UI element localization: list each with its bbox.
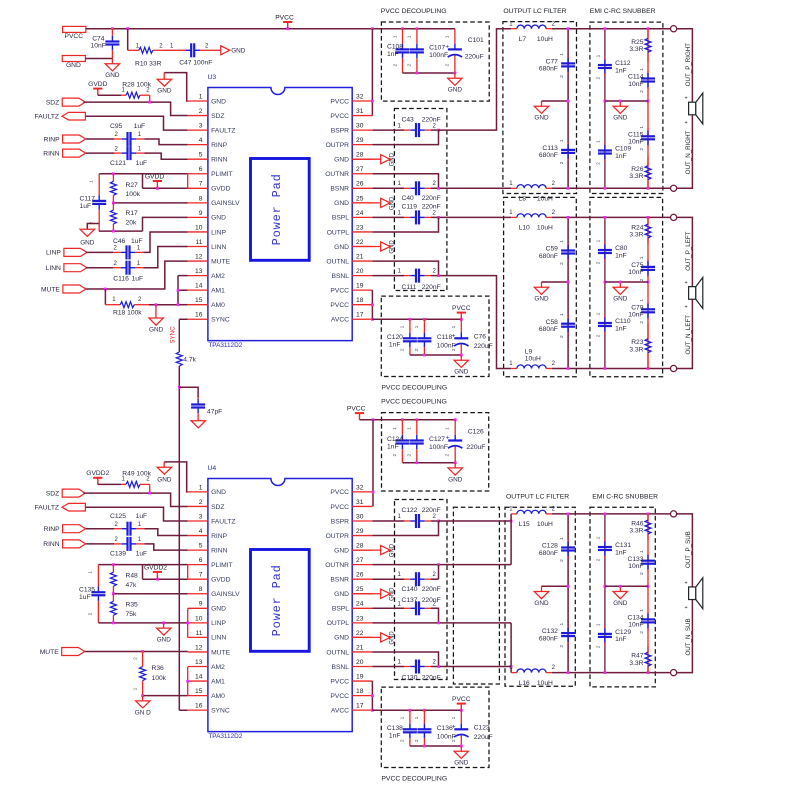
pin 17 AVCC (right) xyxy=(352,318,372,320)
junction xyxy=(567,27,570,30)
svg-text:OUT_N_SUB: OUT_N_SUB xyxy=(685,618,692,655)
svg-text:2: 2 xyxy=(113,246,117,252)
capacitor C124 1nF (U4 PVCC decoupling) xyxy=(401,420,403,435)
svg-text:1: 1 xyxy=(444,35,450,38)
pin 6 PLIMIT (left) xyxy=(188,173,208,175)
wire OUTNL to C111 junction xyxy=(372,261,438,276)
capacitor C115 10nF xyxy=(647,129,649,131)
svg-text:1: 1 xyxy=(451,716,457,719)
ground (U4 pin25) xyxy=(352,593,381,595)
op-amp class-D amplifier IC U4 TPA3112D2 xyxy=(208,479,352,732)
junction xyxy=(647,367,650,370)
svg-text:RINN: RINN xyxy=(211,547,228,554)
ground (snubber mid) xyxy=(619,101,621,106)
power symbol GVDD (pin7) xyxy=(153,180,162,182)
svg-text:2: 2 xyxy=(639,321,645,324)
U4 thermal Power Pad xyxy=(251,550,310,652)
svg-text:2: 2 xyxy=(199,108,203,115)
wire to speaker minus xyxy=(677,299,693,368)
svg-text:R17: R17 xyxy=(126,210,139,217)
connector RINN (U3) xyxy=(63,149,86,157)
svg-text:GND: GND xyxy=(389,543,395,557)
svg-text:C75: C75 xyxy=(631,262,644,269)
svg-text:+: + xyxy=(452,332,456,339)
junction xyxy=(112,621,115,624)
svg-text:2: 2 xyxy=(433,269,437,275)
svg-text:24: 24 xyxy=(356,601,364,608)
svg-text:FAULTZ: FAULTZ xyxy=(35,114,59,121)
svg-text:AVCC: AVCC xyxy=(331,707,349,714)
capacitor C75 10nF xyxy=(647,259,649,261)
terminal xyxy=(671,365,677,371)
svg-text:C101: C101 xyxy=(468,37,484,44)
capacitor C136 100nF xyxy=(423,710,425,723)
svg-text:AM2: AM2 xyxy=(211,664,225,671)
svg-text:+: + xyxy=(685,96,688,102)
svg-text:L8: L8 xyxy=(519,196,527,203)
junction xyxy=(567,367,570,370)
svg-text:2: 2 xyxy=(406,454,412,457)
wire SDZ to U4 pin2 xyxy=(83,493,187,506)
wire OUTNR junction down to C140 xyxy=(438,565,440,580)
junction xyxy=(604,27,607,30)
pin 21 OUTNL (right) xyxy=(352,260,372,262)
svg-text:680nF: 680nF xyxy=(539,326,558,333)
junction xyxy=(148,492,151,495)
svg-text:2: 2 xyxy=(444,64,450,67)
connector FAULTZ (U3) xyxy=(62,112,85,120)
capacitor C101 220uF (PVCC bulk) xyxy=(454,29,456,44)
capacitor C74 10nF xyxy=(111,29,113,35)
wire to speaker minus xyxy=(677,600,693,673)
svg-text:17: 17 xyxy=(356,703,364,710)
svg-text:GAINSLV: GAINSLV xyxy=(211,200,240,207)
svg-text:2: 2 xyxy=(114,146,118,152)
svg-text:13: 13 xyxy=(195,659,203,666)
junction xyxy=(619,281,622,284)
capacitor C120 1nF xyxy=(409,319,411,332)
wire OUT_N_SUB output N row xyxy=(552,672,671,674)
svg-text:680nF: 680nF xyxy=(539,66,558,73)
svg-text:GND: GND xyxy=(448,476,463,483)
ground (R18) xyxy=(155,305,157,318)
ground (U4 pin22) xyxy=(352,636,381,638)
connector RINP (U4) xyxy=(63,525,86,533)
op-amp class-D amplifier IC U3 TPA3112D2 xyxy=(208,88,352,341)
wire R18 to AM pins xyxy=(149,304,178,306)
wire PLIMIT node (U4 pin6 row) xyxy=(98,564,187,566)
svg-text:10: 10 xyxy=(195,615,203,622)
capacitor C76 220uF xyxy=(460,319,462,332)
pin 24 BSPL (right) xyxy=(352,607,372,609)
inductor L15 10uH xyxy=(517,510,546,514)
junction xyxy=(372,418,375,421)
connector MUTE (U4) xyxy=(62,648,85,656)
speaker LEFT xyxy=(689,287,696,300)
svg-text:BSNL: BSNL xyxy=(332,664,350,671)
svg-text:GVDD2: GVDD2 xyxy=(86,470,109,477)
svg-text:C116: C116 xyxy=(113,275,129,282)
wire GVDD2 row (U4 pin7) xyxy=(143,578,188,580)
svg-text:1: 1 xyxy=(398,181,402,187)
svg-text:31: 31 xyxy=(356,108,364,115)
junction xyxy=(647,281,650,284)
wire to speaker plus xyxy=(677,217,693,286)
wire OUTNL to C130 junction (U4) xyxy=(372,652,438,667)
ground (47pF) xyxy=(197,416,199,421)
wire filter cap rail xyxy=(567,29,569,189)
junction xyxy=(460,709,463,712)
svg-text:C132: C132 xyxy=(542,628,558,635)
svg-text:AM1: AM1 xyxy=(211,678,225,685)
svg-text:PVCC: PVCC xyxy=(330,489,349,496)
pin 29 OUTPR (right) xyxy=(352,144,372,146)
svg-text:10uH: 10uH xyxy=(525,356,541,363)
svg-text:GND: GND xyxy=(66,62,81,69)
svg-text:MUTE: MUTE xyxy=(211,258,230,265)
svg-text:PVCC: PVCC xyxy=(347,405,366,412)
junction xyxy=(372,491,375,494)
svg-text:21: 21 xyxy=(356,644,364,651)
wire OUTPL row (U4) xyxy=(372,622,511,624)
wire PLIMIT to GVDD row xyxy=(142,174,144,189)
junction xyxy=(437,563,440,566)
svg-text:2: 2 xyxy=(433,123,437,129)
svg-text:C137: C137 xyxy=(402,597,418,604)
svg-text:220nF: 220nF xyxy=(422,204,441,211)
wire PVCC rail (U4) xyxy=(360,419,456,421)
svg-text:2: 2 xyxy=(596,76,602,79)
junction xyxy=(567,100,570,103)
capacitor C121 1uF (RINN) xyxy=(86,152,114,154)
svg-text:GVDD: GVDD xyxy=(145,174,164,181)
capacitor C111 220nF (BSNL bootstrap) xyxy=(404,275,410,277)
svg-text:5: 5 xyxy=(199,152,203,159)
svg-text:GND: GND xyxy=(211,98,226,105)
resistor R25 3.3R xyxy=(647,29,649,39)
svg-text:1: 1 xyxy=(639,609,645,612)
svg-text:LINP: LINP xyxy=(211,229,226,236)
svg-text:SDZ: SDZ xyxy=(211,504,224,511)
svg-text:+: + xyxy=(685,605,688,611)
dashed box bootstrap caps U3 xyxy=(394,109,447,291)
svg-text:R48: R48 xyxy=(126,573,139,580)
svg-text:LINN: LINN xyxy=(46,265,61,272)
svg-text:R10 33R: R10 33R xyxy=(135,61,162,68)
svg-text:2: 2 xyxy=(414,348,420,351)
svg-text:32: 32 xyxy=(356,93,364,100)
junction xyxy=(454,418,457,421)
svg-text:OUT_P_RIGHT: OUT_P_RIGHT xyxy=(685,43,692,87)
junction xyxy=(604,671,607,674)
connector LINN (U3) xyxy=(64,264,87,272)
svg-text:EMI C-RC SNUBBER: EMI C-RC SNUBBER xyxy=(592,493,658,500)
ground (U3 pin1) xyxy=(164,73,188,101)
wire U4 pin20 to C130 xyxy=(372,666,404,668)
svg-text:10uH: 10uH xyxy=(537,521,553,528)
bracket U4 pins 9-10-11 (inputs grounded) xyxy=(187,608,189,637)
junction xyxy=(156,578,159,581)
svg-text:C130: C130 xyxy=(402,675,418,682)
svg-text:1: 1 xyxy=(559,537,565,540)
svg-text:MUTE: MUTE xyxy=(41,286,60,293)
junction xyxy=(567,281,570,284)
ground (U4 divider bottom) xyxy=(163,623,165,628)
dashed box output LC filter sub channel xyxy=(505,507,575,686)
junction xyxy=(156,187,159,190)
resistor R28 100k (SDZ pullup) xyxy=(121,94,126,96)
wire MUTE junction down to R18 xyxy=(104,289,106,305)
svg-text:BSNR: BSNR xyxy=(330,186,349,193)
junction xyxy=(647,27,650,30)
svg-text:GND: GND xyxy=(534,296,549,303)
wire C43 junction xyxy=(431,129,439,131)
capacitor C130 220nF (BSNL bootstrap) xyxy=(404,666,410,668)
junction xyxy=(460,354,463,357)
pin 13 AM2 (left) xyxy=(188,275,208,277)
svg-text:R27: R27 xyxy=(126,182,139,189)
wire snubber branch A xyxy=(604,217,606,368)
svg-text:GND: GND xyxy=(389,196,395,210)
svg-text:R18 100k: R18 100k xyxy=(113,309,142,316)
pin 17 AVCC (right) xyxy=(352,709,372,711)
svg-text:C125: C125 xyxy=(110,513,126,520)
ground (LC filter mid) xyxy=(541,586,543,591)
svg-text:16: 16 xyxy=(195,312,203,319)
svg-text:OUTPR: OUTPR xyxy=(326,142,350,149)
wire bottom rail (U4 bottom decoupling) xyxy=(410,745,461,747)
wire PVCC rail to U4 pins 31/32 xyxy=(372,420,374,507)
resistor R46 3.3R xyxy=(647,514,649,520)
capacitor C126 220uF (U4 PVCC bulk) xyxy=(454,420,456,435)
capacitor C128 680nF xyxy=(567,540,569,542)
pin 9 GND (left) xyxy=(188,216,208,218)
svg-text:12: 12 xyxy=(195,644,203,651)
junction xyxy=(604,216,607,219)
svg-text:8: 8 xyxy=(199,195,203,202)
capacitor C127 100nF (U4 PVCC decoupling) xyxy=(416,420,418,435)
svg-text:1: 1 xyxy=(137,261,141,267)
pin 28 GND (right) xyxy=(352,549,372,551)
svg-text:220uF: 220uF xyxy=(474,734,493,741)
wire OUTNR row (U4) xyxy=(372,564,511,566)
svg-text:3.3R: 3.3R xyxy=(629,528,643,535)
svg-text:3: 3 xyxy=(199,513,203,520)
pin 18 PVCC (right) xyxy=(352,304,372,306)
wire C122 junction xyxy=(431,520,439,522)
svg-text:1: 1 xyxy=(596,536,602,539)
pin 20 BSNL (right) xyxy=(352,275,372,277)
pin 32 PVCC (right) xyxy=(352,100,372,102)
pin 27 OUTNR (right) xyxy=(352,173,372,175)
svg-text:PVCC DECOUPLING: PVCC DECOUPLING xyxy=(381,399,447,406)
svg-text:SYNC: SYNC xyxy=(169,326,176,344)
svg-text:GND: GND xyxy=(211,606,226,613)
pin 12 MUTE (left) xyxy=(188,260,208,262)
wire pin20 to C111 xyxy=(372,275,404,277)
junction xyxy=(454,461,457,464)
power symbol GVDD (R28) xyxy=(93,88,102,90)
svg-text:2: 2 xyxy=(639,631,645,634)
svg-text:GND: GND xyxy=(211,215,226,222)
pin 16 SYNC (left) xyxy=(188,709,208,711)
capacitor C80 1nF xyxy=(604,243,606,245)
wire U4 pin24 to C137 xyxy=(372,607,404,609)
svg-text:GND: GND xyxy=(534,600,549,607)
junction xyxy=(460,318,463,321)
resistor R47 3.3R xyxy=(647,646,649,652)
svg-text:1: 1 xyxy=(398,269,402,275)
svg-text:PVCC DECOUPLING: PVCC DECOUPLING xyxy=(381,8,447,15)
junction xyxy=(371,100,374,103)
svg-text:100k: 100k xyxy=(126,191,141,198)
svg-text:1nF: 1nF xyxy=(615,153,627,160)
resistor R23 3.3R xyxy=(647,323,649,339)
wire SYNC below 4.7k xyxy=(178,366,180,710)
svg-text:1: 1 xyxy=(509,665,513,671)
svg-text:2: 2 xyxy=(400,348,406,351)
wire OUT_P_SUB output P row xyxy=(552,513,671,515)
svg-text:17: 17 xyxy=(356,312,364,319)
svg-text:OUT_N_RIGHT: OUT_N_RIGHT xyxy=(685,130,692,174)
svg-text:LINP: LINP xyxy=(46,250,61,257)
svg-text:1: 1 xyxy=(138,537,142,543)
svg-text:GND: GND xyxy=(334,635,349,642)
svg-text:24: 24 xyxy=(356,210,364,217)
wire PLIMIT node (pin6 row) xyxy=(99,173,188,175)
wire C119 junction to L10 xyxy=(431,216,511,218)
svg-text:10nF: 10nF xyxy=(628,81,643,88)
svg-text:OUTNR: OUTNR xyxy=(325,562,349,569)
wire snubber mid xyxy=(605,100,648,102)
svg-text:GND: GND xyxy=(334,591,349,598)
svg-text:C124: C124 xyxy=(387,436,403,443)
svg-text:C121: C121 xyxy=(110,160,126,167)
dashed box EMI snubber sub channel xyxy=(590,507,655,687)
svg-text:20: 20 xyxy=(356,268,364,275)
svg-text:2: 2 xyxy=(596,558,602,561)
wire U4 pin26 to C140 xyxy=(372,578,404,580)
svg-text:1nF: 1nF xyxy=(615,67,627,74)
pin 21 OUTNL (right) xyxy=(352,651,372,653)
svg-text:LINP: LINP xyxy=(211,620,226,627)
svg-text:4.7k: 4.7k xyxy=(183,357,196,364)
svg-text:16: 16 xyxy=(195,703,203,710)
svg-text:2: 2 xyxy=(114,537,118,543)
wire PVCC rail top xyxy=(86,28,455,30)
svg-text:1: 1 xyxy=(559,240,565,243)
wire GND connector to C74 xyxy=(85,58,112,60)
svg-text:680nF: 680nF xyxy=(539,152,558,159)
svg-text:C46: C46 xyxy=(113,238,126,245)
svg-text:10uH: 10uH xyxy=(537,36,553,43)
svg-text:1: 1 xyxy=(138,146,142,152)
svg-text:SDZ: SDZ xyxy=(46,99,59,106)
junction xyxy=(415,461,418,464)
junction xyxy=(155,303,158,306)
terminal xyxy=(671,185,677,191)
capacitor C137 220nF (BSPL bootstrap) xyxy=(404,607,410,609)
svg-text:C117: C117 xyxy=(80,195,96,202)
wire filter mid to ground xyxy=(542,100,569,102)
svg-text:GVDD: GVDD xyxy=(88,81,107,88)
capacitor C109 1nF xyxy=(604,143,606,145)
svg-text:2: 2 xyxy=(445,454,451,457)
wire C137 junction down to OUTPL row xyxy=(431,608,439,623)
wire AVCC to PVCC decoupling (U4 bottom box) xyxy=(372,709,461,711)
svg-text:AM2: AM2 xyxy=(211,273,225,280)
svg-text:C58: C58 xyxy=(546,319,559,326)
svg-text:1: 1 xyxy=(559,139,565,142)
junction xyxy=(371,27,374,30)
svg-text:PVCC DECOUPLING: PVCC DECOUPLING xyxy=(381,385,447,392)
svg-text:5: 5 xyxy=(199,543,203,550)
wire GVDD row (pin7) xyxy=(143,187,188,189)
svg-text:R46: R46 xyxy=(631,520,644,527)
svg-text:1: 1 xyxy=(639,550,645,553)
ground (LC filter mid) xyxy=(541,101,543,106)
svg-text:OUTPL: OUTPL xyxy=(327,620,350,627)
svg-text:21: 21 xyxy=(356,253,364,260)
svg-text:1: 1 xyxy=(559,53,565,56)
bracket U4 pins 6-7 xyxy=(187,565,189,580)
svg-text:GND: GND xyxy=(613,115,628,122)
svg-text:FAULTZ: FAULTZ xyxy=(211,127,235,134)
svg-text:1uF: 1uF xyxy=(134,123,146,130)
svg-text:GND: GND xyxy=(448,87,463,94)
junction xyxy=(409,709,412,712)
wire P node to L15 xyxy=(510,514,512,565)
svg-text:R23: R23 xyxy=(631,339,644,346)
svg-text:1: 1 xyxy=(596,239,602,242)
svg-text:R35: R35 xyxy=(126,602,139,609)
svg-text:TPA3112D2: TPA3112D2 xyxy=(208,733,242,740)
svg-text:OUTPR: OUTPR xyxy=(326,533,350,540)
svg-text:1: 1 xyxy=(639,256,645,259)
svg-text:BSNR: BSNR xyxy=(330,577,349,584)
terminal xyxy=(671,511,677,517)
junction xyxy=(567,585,570,588)
svg-text:GND: GND xyxy=(157,637,172,644)
svg-text:1uF: 1uF xyxy=(80,203,92,210)
wire branch to 47pF xyxy=(179,387,198,397)
svg-text:GND: GND xyxy=(613,600,628,607)
svg-text:1: 1 xyxy=(398,123,402,129)
svg-text:RINN: RINN xyxy=(43,541,60,548)
junction xyxy=(112,202,115,205)
pin 3 FAULTZ (left) xyxy=(188,520,208,522)
svg-text:1: 1 xyxy=(398,514,402,520)
wire pin26 to C40 xyxy=(372,187,404,189)
svg-text:OUTPL: OUTPL xyxy=(327,229,350,236)
svg-text:220nF: 220nF xyxy=(422,284,441,291)
ground (R36) xyxy=(142,696,144,701)
capacitor C58 680nF xyxy=(567,316,569,318)
svg-text:1: 1 xyxy=(639,126,645,129)
svg-text:GND: GND xyxy=(534,115,549,122)
svg-text:1: 1 xyxy=(559,313,565,316)
svg-text:GND: GND xyxy=(157,477,172,484)
pin 5 RINN (left) xyxy=(188,549,208,551)
svg-text:2: 2 xyxy=(596,261,602,264)
svg-text:R47: R47 xyxy=(631,653,644,660)
junction xyxy=(177,303,180,306)
svg-text:PVCC: PVCC xyxy=(452,696,471,703)
bracket pins 6-7 xyxy=(187,174,189,189)
svg-text:680nF: 680nF xyxy=(539,635,558,642)
wire C46 to pin10 xyxy=(144,232,188,252)
svg-text:220nF: 220nF xyxy=(422,507,441,514)
